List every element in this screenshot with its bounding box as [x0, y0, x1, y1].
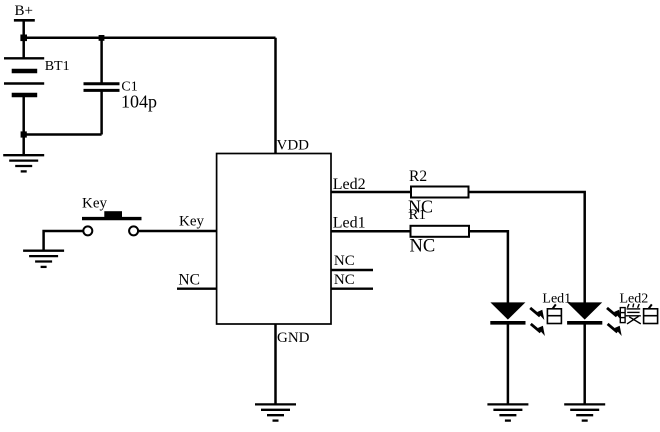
svg-text:104p: 104p	[121, 92, 157, 112]
wire LED1 cathode to ground	[507, 323, 510, 404]
svg-text:NC: NC	[334, 272, 355, 288]
svg-text:NC: NC	[178, 271, 200, 288]
label 白 (white) second drawn glyph	[644, 304, 658, 323]
ground below LED1	[487, 404, 528, 420]
node B+ terminal bar	[14, 19, 35, 22]
wire B+ vertical to battery	[22, 20, 25, 58]
svg-text:Led1: Led1	[333, 215, 366, 232]
junction at battery top	[20, 35, 27, 42]
svg-text:Led1: Led1	[542, 291, 571, 306]
ground below IC	[255, 404, 296, 420]
LED D1	[490, 302, 525, 322]
svg-text:NC: NC	[410, 236, 436, 256]
wire LED2 cathode to ground	[583, 323, 586, 404]
battery BT1	[4, 58, 44, 95]
wire battery bottom	[22, 95, 25, 135]
svg-text:NC: NC	[334, 253, 355, 269]
ground below battery	[3, 155, 44, 171]
capacitor C1	[84, 84, 120, 91]
LED D1 arrow 2	[531, 324, 545, 336]
IC U1 body	[217, 154, 331, 325]
LED D2 arrow 2	[608, 324, 622, 336]
pin Led2 wire	[331, 191, 411, 194]
svg-text:Led2: Led2	[333, 176, 366, 193]
wire R1 to LED1	[469, 231, 508, 302]
LED D2	[567, 302, 602, 322]
ground below LED2	[564, 404, 605, 420]
label 白 (white) drawn glyph	[547, 304, 561, 323]
svg-text:VDD: VDD	[277, 138, 310, 154]
ground below switch	[23, 251, 64, 267]
svg-text:Key: Key	[179, 214, 204, 230]
wire top rail B+ to VDD corner	[24, 37, 276, 40]
pin NC right stub 2	[331, 288, 373, 290]
LED D1 arrow 1	[530, 308, 544, 320]
svg-text:R2: R2	[409, 168, 427, 185]
svg-text:B+: B+	[15, 3, 33, 19]
LED D2 arrow 1	[607, 308, 621, 320]
pin Led1 wire	[331, 230, 411, 233]
wire capacitor bottom	[100, 90, 103, 134]
junction at battery bottom	[21, 131, 27, 137]
pin NC right stub 1	[331, 269, 373, 271]
wire capacitor top	[100, 38, 103, 84]
pin NC left stub	[177, 288, 217, 290]
svg-text:Key: Key	[82, 196, 107, 212]
pushbutton switch Key	[82, 211, 142, 235]
wire ground stub below battery	[22, 135, 25, 156]
wire battery bottom to capacitor bottom	[24, 133, 102, 136]
wire R2 to LED2	[469, 192, 585, 303]
junction at capacitor top	[99, 35, 105, 41]
resistor R1	[411, 226, 470, 237]
resistor R2	[411, 187, 469, 198]
wire switch left to ground	[44, 231, 84, 251]
svg-text:R1: R1	[409, 207, 427, 223]
wire switch right to IC Key pin	[138, 230, 217, 233]
label 暖 (warm) drawn glyph	[620, 304, 641, 324]
svg-text:GND: GND	[277, 330, 310, 346]
svg-text:BT1: BT1	[45, 59, 70, 74]
pin GND wire	[274, 324, 277, 404]
pin VDD wire	[274, 38, 277, 154]
